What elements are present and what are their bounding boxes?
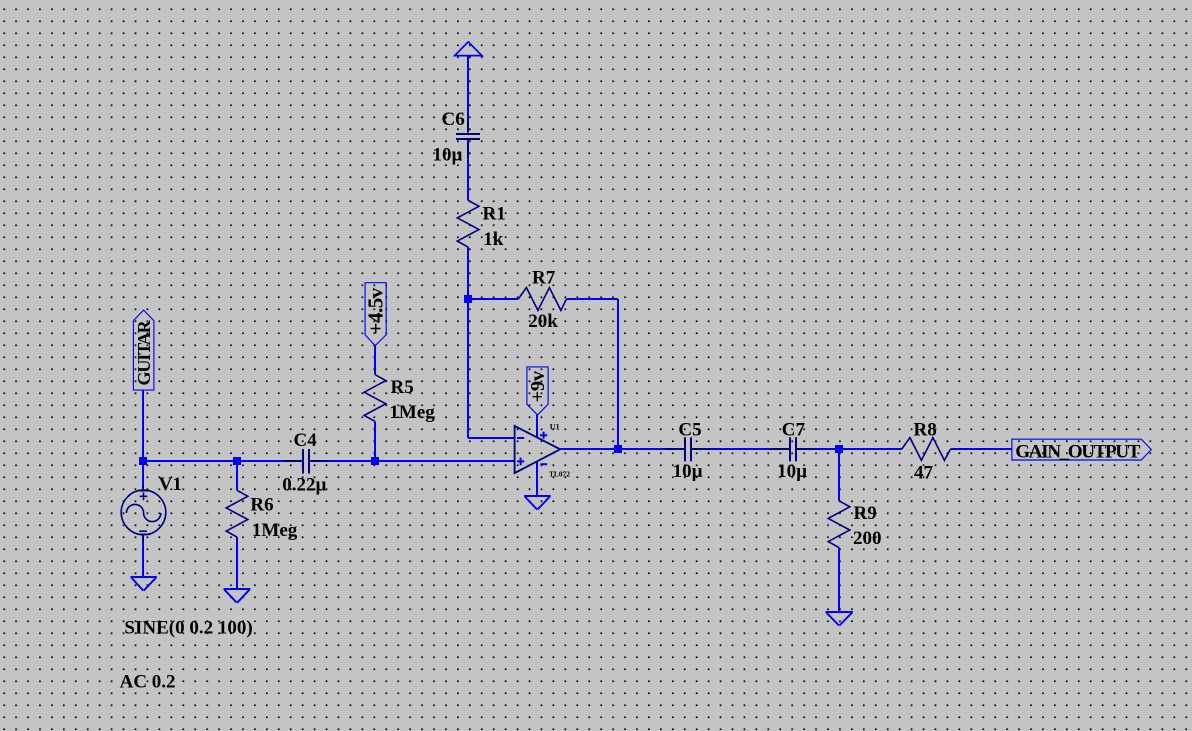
svg-text:GAIN_OUTPUT: GAIN_OUTPUT <box>1015 441 1140 462</box>
ground (V1) <box>131 577 157 591</box>
svg-text:10µ: 10µ <box>777 461 807 482</box>
wire C6 to R1 <box>467 158 469 200</box>
svg-text:+4.5v: +4.5v <box>364 287 388 334</box>
op-amp U1 <box>515 426 561 473</box>
svg-text:R7: R7 <box>532 268 556 289</box>
wire to inverting input <box>468 437 515 439</box>
svg-text:C5: C5 <box>678 419 701 440</box>
wire R1 to node <box>467 247 469 299</box>
svg-text:AC 0.2: AC 0.2 <box>120 671 176 692</box>
wire feedback vertical right <box>617 299 619 449</box>
wire +4.5v flag to R5 <box>374 346 376 375</box>
node output junction <box>614 445 622 453</box>
svg-text:47: 47 <box>914 463 934 484</box>
svg-text:R9: R9 <box>854 503 877 524</box>
op-amp input markers <box>517 432 547 466</box>
wire node down to inverting input <box>467 299 469 438</box>
svg-text:R1: R1 <box>483 204 506 225</box>
capacitor C4 <box>283 449 328 474</box>
voltage source V1 <box>121 490 166 535</box>
resistor R6 <box>226 490 248 537</box>
net flag GUITAR <box>133 310 154 390</box>
resistor R5 <box>364 375 386 422</box>
main signal wire left <box>143 460 283 462</box>
ground (op-amp) <box>524 496 551 510</box>
svg-text:R8: R8 <box>914 419 937 440</box>
capacitor C6 <box>456 115 480 159</box>
svg-text:20k: 20k <box>528 311 558 332</box>
wire R6 to ground <box>236 537 238 589</box>
wire R8 to output flag <box>951 448 1012 450</box>
node main/GUITAR <box>139 457 147 465</box>
svg-text:+9v: +9v <box>527 370 549 402</box>
wire power flag to C6 <box>467 56 469 115</box>
resistor R9 <box>828 501 850 548</box>
resistor R8 <box>902 438 951 461</box>
wire R5 to main <box>374 421 376 461</box>
wire +9v to op-amp V+ <box>536 415 538 438</box>
wire R9 to ground <box>838 548 840 612</box>
svg-text:1Meg: 1Meg <box>389 402 435 423</box>
svg-text:1Meg: 1Meg <box>252 520 298 541</box>
node main/R5 <box>371 457 379 465</box>
svg-text:SINE(0 0.2 100): SINE(0 0.2 100) <box>124 617 252 638</box>
power rail flag (top) <box>455 42 482 56</box>
svg-text:R6: R6 <box>250 495 273 516</box>
resistor R7 <box>518 288 566 311</box>
svg-text:GUITAR: GUITAR <box>134 319 154 385</box>
wire C7 to R8 <box>815 448 902 450</box>
wire C5 to C7 <box>711 448 771 450</box>
svg-text:1k: 1k <box>483 229 504 250</box>
svg-text:C4: C4 <box>294 430 318 451</box>
net flag +9v <box>527 367 548 415</box>
svg-text:C6: C6 <box>442 109 465 130</box>
node feedback junction <box>464 295 472 303</box>
wire R7 to feedback drop <box>566 298 618 300</box>
main signal wire mid <box>328 460 515 462</box>
wire V1 to ground <box>142 535 144 542</box>
svg-text:U1: U1 <box>550 422 560 431</box>
wire main to V1 <box>142 461 144 486</box>
svg-text:200: 200 <box>853 528 882 549</box>
svg-text:R5: R5 <box>391 377 414 398</box>
svg-text:0.22µ: 0.22µ <box>282 474 326 495</box>
wire GUITAR to main net <box>142 390 144 461</box>
svg-text:10µ: 10µ <box>673 461 703 482</box>
wire op-amp output <box>560 448 665 450</box>
net flag +4.5v <box>365 283 386 346</box>
svg-text:10µ: 10µ <box>433 144 463 165</box>
ground (R9) <box>826 612 853 626</box>
resistor R1 <box>457 200 479 247</box>
wire op-amp V- to ground <box>536 461 538 496</box>
wire node to R7 <box>468 298 518 300</box>
node R9 junction <box>835 445 843 453</box>
node main/R6 <box>233 457 241 465</box>
capacitor C7 <box>770 437 815 461</box>
svg-text:V1: V1 <box>159 474 182 495</box>
net flag GAIN_OUTPUT <box>1012 439 1151 460</box>
capacitor C5 <box>666 437 711 461</box>
svg-text:C7: C7 <box>782 419 806 440</box>
svg-text:TL072: TL072 <box>549 469 570 478</box>
wire main to R6 <box>236 461 238 490</box>
ground (R6) <box>224 589 251 603</box>
wire junction to R9 <box>838 449 840 501</box>
